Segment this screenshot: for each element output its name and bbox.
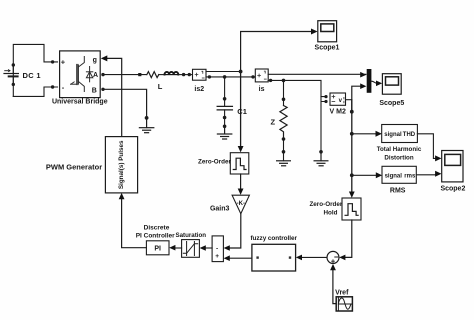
scope Scope1 xyxy=(318,21,337,42)
ground (below B wire) xyxy=(139,118,153,133)
block PI (Discrete PI Controller) xyxy=(146,241,169,255)
wire junction up to Scope1 xyxy=(241,32,312,72)
wire is2 minus to is block xyxy=(206,76,255,78)
arrow into Scope2 in1 xyxy=(435,155,441,161)
svg-text:Zero-Order: Zero-Order xyxy=(198,159,231,166)
voltmeter V M2 xyxy=(330,93,346,105)
arrow into Scope1 xyxy=(311,29,318,35)
sum Add block xyxy=(212,236,223,262)
arrow into RMS xyxy=(376,172,382,178)
svg-text:Zero-Order: Zero-Order xyxy=(309,201,342,208)
svg-text:DC 1: DC 1 xyxy=(23,71,41,80)
scope Scope5 xyxy=(382,74,401,95)
wire Gain3 to Add minus xyxy=(229,214,241,248)
node trunk dot RMS xyxy=(350,173,354,177)
wire Z branch down xyxy=(283,80,285,105)
block Saturation xyxy=(182,240,200,258)
arrow into THD xyxy=(376,131,382,137)
wire mux output to Scope5 xyxy=(371,81,377,83)
wire Vref to sum xyxy=(333,270,337,304)
svg-text:THD: THD xyxy=(403,132,416,138)
arrow into PI xyxy=(169,245,175,251)
node Z bottom dots xyxy=(282,137,286,141)
node A port dot xyxy=(101,73,104,76)
wire ZOH1 to Gain3 xyxy=(240,174,242,189)
node DC+ port dot xyxy=(51,60,54,63)
svg-text:Scope5: Scope5 xyxy=(379,100,404,107)
arrow into mux input2 xyxy=(360,83,366,89)
block Zero-Order Hold 1 xyxy=(230,153,249,174)
node C1 tap dot xyxy=(223,75,227,79)
wire trunk up to mux input2 xyxy=(352,86,361,112)
block Total Harmonic Distortion xyxy=(382,125,418,143)
arrow into Scope5 xyxy=(376,81,382,87)
svg-text:is: is xyxy=(259,86,265,93)
node is input dot xyxy=(251,75,254,78)
block is current measurement xyxy=(255,69,268,82)
mux Mux1 xyxy=(367,69,372,93)
svg-text:Hold: Hold xyxy=(324,210,338,217)
node B ground dot xyxy=(145,116,149,120)
node trunk dot a xyxy=(350,110,354,114)
wire Saturation to PI xyxy=(175,247,182,249)
gain Gain3 xyxy=(232,195,249,214)
block Vref sine source xyxy=(336,297,352,311)
resistor Z xyxy=(280,106,287,140)
arrow into sum right xyxy=(339,255,345,261)
wire fuzzy to Add plus xyxy=(229,257,252,259)
arrow into Zero-Order Hold top xyxy=(238,146,244,152)
arrow into Saturation xyxy=(200,245,206,251)
svg-text:V M2: V M2 xyxy=(330,108,346,115)
arrow into Gain3 xyxy=(238,189,244,195)
node is2 input dot xyxy=(188,73,191,76)
svg-text:Signal(s) Pulses: Signal(s) Pulses xyxy=(118,140,125,189)
node B port dot xyxy=(101,88,104,91)
wire THD to Scope2 xyxy=(417,134,436,159)
svg-text:PI Controller: PI Controller xyxy=(136,233,175,240)
svg-text:+: + xyxy=(61,58,66,67)
arrow into ZOH2 top xyxy=(349,192,355,198)
wire PI to PWM xyxy=(122,199,147,248)
wire ZOH2 to sum xyxy=(344,220,352,257)
node L output dot xyxy=(182,73,185,76)
arrow into Scope2 in2 xyxy=(435,171,441,177)
node VM2 + dot xyxy=(324,95,327,98)
wire C1 branch down xyxy=(224,77,226,106)
svg-text:rms: rms xyxy=(404,174,416,180)
wire DC+ loop top xyxy=(13,44,57,96)
wire junction down to Zero-Order Hold xyxy=(240,72,242,147)
ground (Z) xyxy=(277,161,291,166)
svg-text:Universal Bridge: Universal Bridge xyxy=(52,99,108,106)
svg-text:RMS: RMS xyxy=(390,188,406,195)
wire RMS to Scope2 xyxy=(416,173,436,176)
arrow into Add minus xyxy=(224,245,230,251)
svg-text:Total Harmonic: Total Harmonic xyxy=(377,146,422,153)
node trunk dot THD xyxy=(350,132,354,136)
node Z top dot xyxy=(282,98,286,102)
svg-text:Scope1: Scope1 xyxy=(315,45,340,52)
node junction is2-signal xyxy=(239,70,243,74)
node DC- port dot xyxy=(51,85,54,88)
svg-text:C1: C1 xyxy=(237,107,247,116)
svg-text:Z: Z xyxy=(271,118,276,127)
svg-text:L: L xyxy=(158,82,163,91)
arrow into g xyxy=(101,55,108,61)
arrow into mux input1 xyxy=(360,72,366,78)
capacitor C1 xyxy=(217,106,232,126)
node C1 bottom dots xyxy=(223,116,227,120)
svg-text:Scope2: Scope2 xyxy=(440,185,465,192)
node VM2 ground dot xyxy=(319,150,323,154)
transistor IGBT (bridge icon) xyxy=(71,57,85,92)
arrow into PWM bottom xyxy=(119,193,125,199)
resistor (L branch series R) xyxy=(147,72,159,78)
svg-text:Vref: Vref xyxy=(335,289,349,296)
wire DC- loop bottom xyxy=(13,87,57,96)
block PWM Generator xyxy=(105,137,137,193)
svg-text:Saturation: Saturation xyxy=(175,232,206,239)
node VM2 - dot xyxy=(324,100,327,103)
inductor L xyxy=(165,72,179,75)
svg-text:Discrete: Discrete xyxy=(144,225,170,232)
svg-text:g: g xyxy=(93,57,97,64)
svg-text:signal: signal xyxy=(385,174,403,180)
arrow into Add plus xyxy=(224,255,230,261)
wire trunk down xyxy=(351,100,353,193)
wire is2 i-output to junction xyxy=(206,71,241,73)
wire trunk to RMS xyxy=(352,174,377,176)
wire B port to ground xyxy=(103,89,147,118)
wire bus down to VM2 and ground xyxy=(321,97,326,152)
svg-text:-: - xyxy=(216,245,218,252)
block Zero-Order Hold 2 xyxy=(342,198,361,220)
wire R to inductor xyxy=(159,74,165,76)
svg-text:B: B xyxy=(92,88,97,95)
svg-text:PWM Generator: PWM Generator xyxy=(46,162,102,171)
node Z tap dot xyxy=(282,79,286,83)
svg-text:Gain3: Gain3 xyxy=(210,205,230,212)
wire inductor to is2 xyxy=(178,74,192,76)
wire is minus to load bus xyxy=(268,80,321,96)
ground (VM2) xyxy=(314,152,328,166)
node is2 out dot xyxy=(208,75,211,78)
arrow into fuzzy xyxy=(296,255,302,261)
block is2 current measurement xyxy=(193,69,207,80)
wire Z to ground xyxy=(283,139,285,161)
svg-text:fuzzy controller: fuzzy controller xyxy=(250,235,297,242)
arrow into sum bottom xyxy=(330,264,336,270)
wire is i-output to mux xyxy=(268,73,366,75)
node C1 top dot xyxy=(223,97,227,101)
battery DC 1 xyxy=(4,63,18,86)
fuzzy controller block xyxy=(252,244,296,271)
ground (C1) xyxy=(217,126,231,139)
svg-text:signal: signal xyxy=(384,132,402,138)
diode (bridge icon) xyxy=(86,67,92,82)
scope Scope2 xyxy=(442,151,463,182)
svg-text:is2: is2 xyxy=(194,86,204,93)
svg-text:Distortion: Distortion xyxy=(384,154,413,161)
wire sum to fuzzy xyxy=(301,256,327,258)
svg-text:PI: PI xyxy=(154,246,161,253)
svg-text:+: + xyxy=(215,253,219,260)
wire A port to L branch xyxy=(103,74,147,76)
svg-text:A: A xyxy=(93,72,98,79)
wire trunk to THD xyxy=(352,133,376,135)
block RMS xyxy=(382,166,416,183)
wire VM2 output to trunk xyxy=(346,99,352,101)
sum circle xyxy=(327,251,339,263)
wire Add to Saturation xyxy=(205,247,212,249)
svg-text:-K-: -K- xyxy=(237,201,245,207)
node L branch input dot xyxy=(138,73,141,76)
wire PWM output to g port xyxy=(107,58,122,136)
block Universal Bridge xyxy=(60,51,101,98)
node is out dot xyxy=(269,79,272,82)
